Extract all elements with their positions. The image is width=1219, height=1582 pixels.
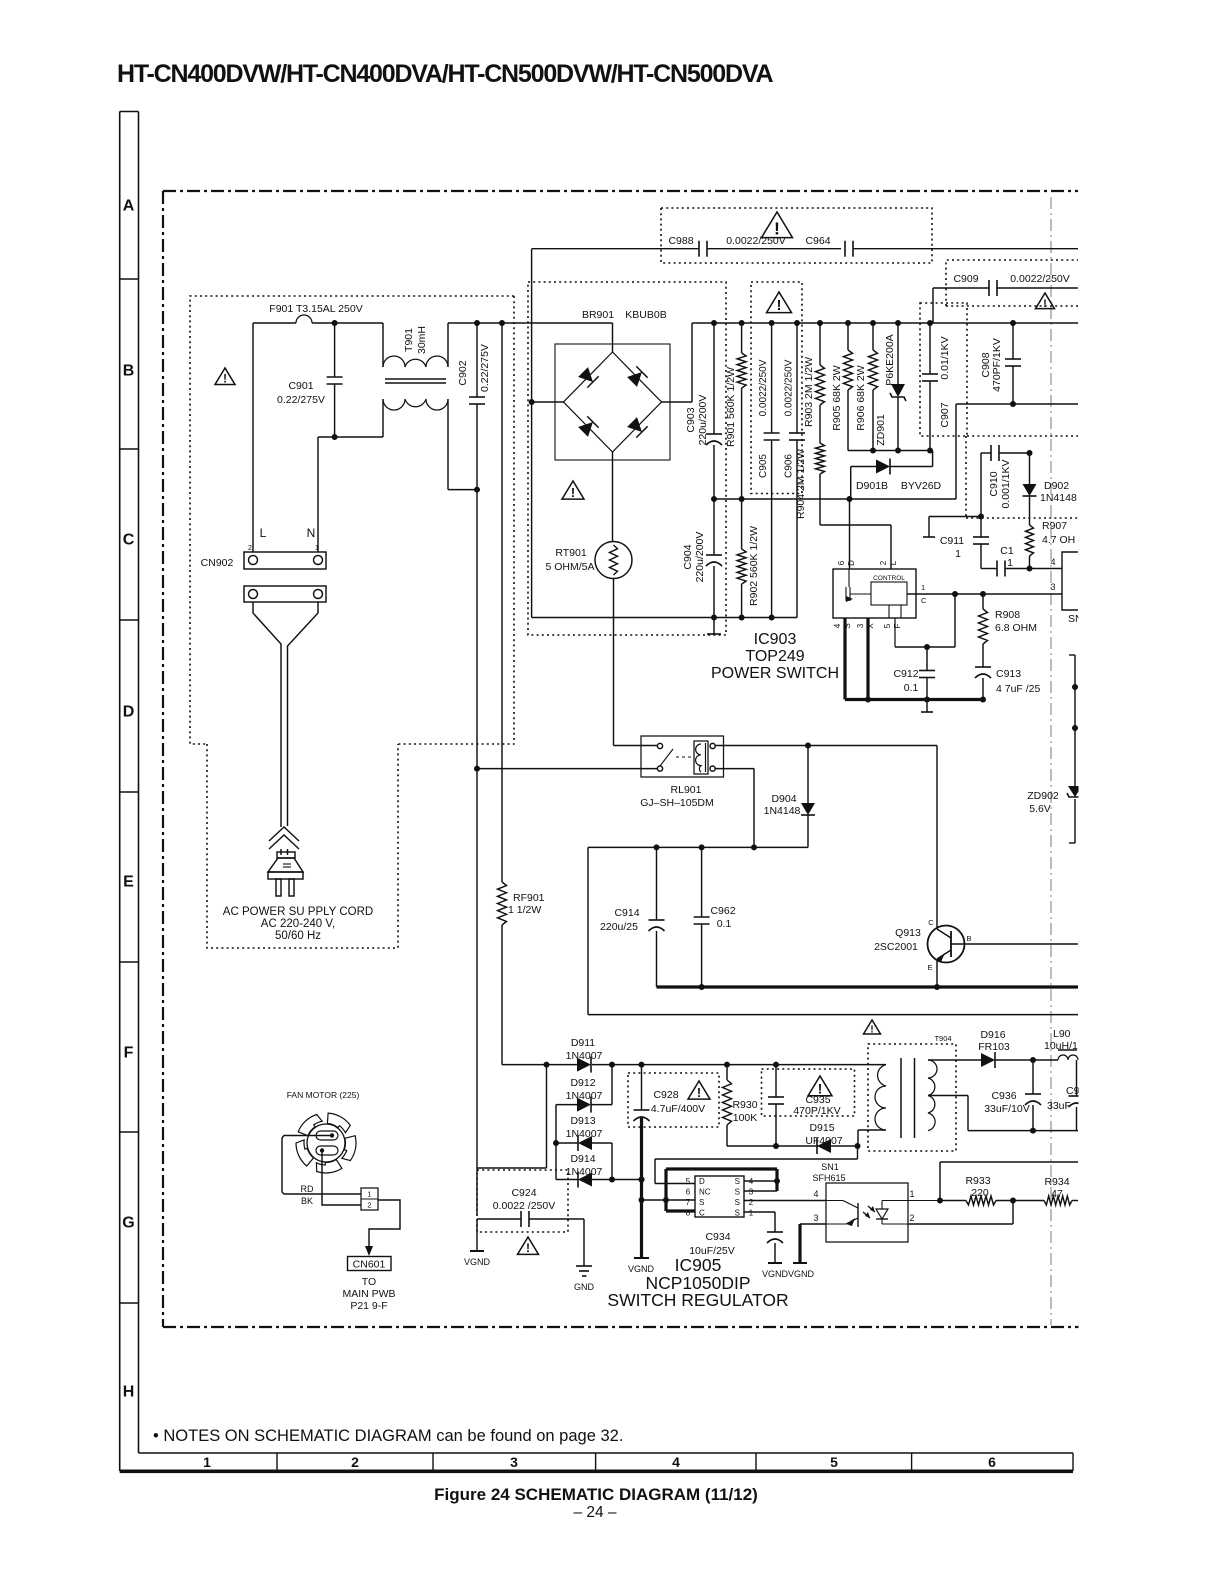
svg-text:1: 1 [749,1209,754,1218]
capacitor C962 [701,847,703,917]
svg-text:C936: C936 [991,1090,1016,1102]
svg-text:C910: C910 [988,471,1000,496]
svg-text:50/60 Hz: 50/60 Hz [275,930,321,942]
svg-text:C912: C912 [893,668,918,680]
capacitor C928 [641,1065,643,1110]
svg-text:SN1: SN1 [821,1162,839,1172]
svg-text:5: 5 [830,1454,838,1470]
svg-text:1N4007: 1N4007 [566,1050,603,1062]
wire IC905 pin1 to C934 [744,1211,775,1213]
wire relay bus down [587,847,589,1014]
right edge bus [1074,655,1076,786]
diode D902 [1029,453,1031,484]
svg-text:C906: C906 [784,454,795,478]
resistor R933 [940,1200,966,1202]
svg-text:0.01/1KV: 0.01/1KV [939,336,951,379]
resistor R901 [741,323,743,353]
resistor RF901 [501,323,503,882]
fan wires [282,1136,361,1195]
svg-text:A: A [123,198,135,215]
svg-text:4: 4 [833,623,842,628]
wire C988 line [532,248,699,250]
svg-text:CN902: CN902 [201,557,234,569]
svg-text:3: 3 [1050,582,1055,592]
wire RT901 to relay [613,579,615,746]
svg-text:R902 560K 1/2W: R902 560K 1/2W [748,526,760,606]
schematic dash-dot border [163,190,1078,192]
svg-text:!: ! [777,298,782,314]
standby bus [502,1064,575,1066]
diode D911 [575,1064,579,1066]
connector CN902 plug half [244,586,326,602]
svg-text:X: X [866,623,875,629]
capacitor C910 [981,452,991,454]
snubber wire [727,1145,858,1147]
AC return bus [532,617,797,619]
capacitor C908 [1012,323,1014,359]
resistor R930 [726,1065,728,1080]
svg-text:1: 1 [203,1454,211,1470]
dotted box C928 [628,1073,719,1127]
svg-text:T901: T901 [403,328,415,352]
svg-text:R906 68K 2W: R906 68K 2W [855,365,867,430]
column number strip [139,1452,1074,1454]
svg-text:0.001/1KV: 0.001/1KV [1000,459,1012,508]
svg-text:NC: NC [699,1188,711,1197]
chassis stub [713,618,715,635]
capacitor C934 [774,1212,776,1232]
svg-text:GND: GND [574,1282,595,1292]
svg-text:RL901: RL901 [671,784,702,796]
bridge diode top-right [626,366,647,387]
mid bus (startup node) [714,498,956,500]
svg-text:R908: R908 [995,609,1020,621]
capacitor C903 [713,323,715,434]
SN1 light arrows [863,1206,875,1218]
svg-text:6: 6 [837,560,846,565]
relay RL901 box [641,736,724,777]
svg-text:L90: L90 [1053,1028,1071,1040]
wire choke bottom right [447,399,449,490]
svg-text:UF4007: UF4007 [805,1135,843,1147]
svg-text:B: B [966,934,971,943]
capacitor C964 [844,241,846,257]
svg-text:D912: D912 [570,1077,595,1089]
terminal bar 2 [926,700,928,713]
svg-text:FR103: FR103 [978,1041,1010,1053]
wire top to C902 [448,322,613,324]
relay supply bus [588,846,808,848]
svg-text:C914: C914 [614,907,639,919]
svg-text:AC 220-240 V,: AC 220-240 V, [261,918,335,930]
feedback wire [937,1198,943,1204]
SN1 LED [881,1201,883,1210]
svg-text:KBUB0B: KBUB0B [625,309,666,321]
svg-text:CN601: CN601 [353,1259,386,1271]
warning triangle C924 [518,1237,539,1254]
bridge diode bottom-left [577,416,598,437]
svg-text:R934: R934 [1044,1176,1069,1188]
IC903 C pin wire [907,593,1062,595]
svg-text:• NOTES ON SCHEMATIC DIAGRAM c: • NOTES ON SCHEMATIC DIAGRAM can be foun… [153,1427,623,1445]
junction bridge left [529,399,535,405]
svg-text:F: F [124,1045,134,1062]
terminal bar [928,517,930,538]
svg-text:TO: TO [362,1276,376,1288]
capacitor C937 (clipped) [1076,1060,1078,1096]
transistor Q913 [928,926,965,963]
AC cord [253,602,281,827]
svg-text:1: 1 [1007,557,1013,569]
svg-text:4: 4 [813,1189,818,1199]
svg-text:470P/1KV: 470P/1KV [793,1105,840,1117]
zener ZD901 [897,323,899,384]
capacitor C912 [926,647,928,671]
svg-text:SFH615: SFH615 [812,1173,845,1183]
svg-text:1N4007: 1N4007 [566,1128,603,1140]
svg-text:33uF/10V: 33uF/10V [984,1103,1030,1115]
svg-text:P21 9-F: P21 9-F [350,1300,387,1312]
svg-text:RF901: RF901 [513,892,545,904]
svg-text:TOP249: TOP249 [745,648,804,665]
bridge diode bottom-right [626,416,647,437]
optocoupler SN1 box [826,1183,908,1242]
fan connector [361,1188,378,1210]
junction C902 top [474,320,480,326]
svg-text:220u/200V: 220u/200V [694,532,706,583]
svg-text:D902: D902 [1044,480,1069,492]
svg-text:2SC2001: 2SC2001 [874,941,918,953]
wire R904 to IC903 L pin [820,524,891,526]
IC905 drain loop (thick) [664,1169,667,1211]
warning triangle C905 box [767,292,792,313]
svg-text:0.0022/250V: 0.0022/250V [758,359,769,416]
diode D914 [556,1179,578,1181]
svg-text:4.7uF/400V: 4.7uF/400V [651,1103,705,1115]
svg-text:ZD902: ZD902 [1027,790,1059,802]
svg-text:8: 8 [686,1209,691,1218]
bridge dotted box [528,282,726,635]
svg-text:RT901: RT901 [555,547,586,559]
svg-text:S: S [735,1209,740,1218]
diode D901B [930,450,933,452]
resistor R934 [1044,1196,1072,1205]
SN1 right pin wires [882,1200,940,1202]
clamp bus [848,450,932,452]
svg-text:!: ! [697,1086,701,1100]
SN1 pin2 wire [908,1223,1013,1225]
svg-text:C913: C913 [996,668,1021,680]
diode D916 [981,1053,995,1067]
error amp box SN [1062,552,1078,610]
dotted box C910/D902 [967,435,1078,437]
svg-text:D: D [123,704,135,721]
svg-text:C: C [921,596,927,605]
right clip mask [1079,100,1219,1460]
svg-text:D914: D914 [570,1153,595,1165]
svg-text:F901 T3.15AL 250V: F901 T3.15AL 250V [269,303,362,315]
svg-text:1: 1 [909,1189,914,1199]
svg-text:S: S [699,1198,704,1207]
svg-text:!: ! [870,1024,873,1035]
svg-text:IC903: IC903 [754,631,797,648]
svg-text:H: H [123,1384,135,1401]
wire C909 to bus [932,288,934,323]
svg-text:220: 220 [971,1187,989,1199]
svg-text:C928: C928 [653,1089,678,1101]
bridge diode top-left [577,366,598,387]
warning triangle (AC) [215,368,235,385]
wire relay contact top [614,745,658,747]
svg-text:220u/200V: 220u/200V [697,395,709,446]
svg-text:R930: R930 [732,1099,757,1111]
svg-text:0.1: 0.1 [717,918,732,930]
wire bridge bottom to RT901 [612,452,614,542]
svg-text:D904: D904 [771,793,796,805]
ladder left rail [555,1105,557,1180]
capacitor C913 [975,666,991,668]
svg-text:470PF/1KV: 470PF/1KV [991,338,1003,392]
svg-text:R907: R907 [1042,520,1067,532]
svg-text:3: 3 [813,1213,818,1223]
svg-text:!: ! [526,1241,530,1255]
svg-text:1N4148: 1N4148 [764,805,801,817]
svg-text:3: 3 [510,1454,518,1470]
svg-text:C904: C904 [682,544,694,569]
thermistor RT901 [595,542,632,579]
svg-text:4.7 OH: 4.7 OH [1042,534,1075,546]
svg-text:N: N [307,526,316,540]
capacitor C902 [476,323,478,397]
resistor R905 [847,323,849,350]
junction fuse/C901 [332,320,338,326]
fan motor symbol [307,1124,345,1162]
relay coil [694,741,708,774]
svg-text:5: 5 [883,623,892,628]
capacitor C935 [775,1065,777,1097]
row label column [119,112,121,1472]
svg-text:!: ! [1043,298,1047,310]
resistor R906 [872,323,874,350]
svg-text:Figure 24 SCHEMATIC DIAGRAM (1: Figure 24 SCHEMATIC DIAGRAM (11/12) [434,1485,758,1504]
svg-text:2: 2 [749,1198,754,1207]
capacitor C924 [477,1218,521,1220]
svg-text:0.0022 /250V: 0.0022 /250V [493,1200,555,1212]
resistor R902 [741,499,743,549]
svg-text:S: S [843,623,852,628]
svg-text:1: 1 [955,548,961,560]
junction line B top [499,320,505,326]
svg-text:2: 2 [248,545,252,552]
capacitor C905 [771,323,773,433]
svg-text:2: 2 [351,1454,359,1470]
capacitor C907 [929,323,931,374]
dotted box C924 [477,1170,568,1232]
svg-text:B: B [123,363,135,380]
wire relay coil top to Q913 [716,745,938,747]
SN1 pin3 VGND (thick) [800,1223,826,1225]
cord break symbol [269,827,299,841]
main rectified bus [692,322,1078,324]
VGND (line A) [476,1219,478,1251]
svg-text:– 24 –: – 24 – [573,1504,616,1521]
svg-text:D915: D915 [809,1122,834,1134]
svg-text:5 OHM/5A: 5 OHM/5A [545,561,594,573]
capacitor C1 [981,568,997,570]
capacitor C988 [698,241,700,257]
svg-text:1 1/2W: 1 1/2W [508,904,541,916]
wire relay coil bottom [716,768,755,770]
svg-text:R903 2M 1/2W: R903 2M 1/2W [803,357,815,427]
svg-text:4: 4 [749,1177,754,1186]
svg-text:3: 3 [856,623,865,628]
junction C905 bottom [769,615,775,621]
AC plug [277,852,295,858]
T904 primary bottom lead [858,1129,886,1131]
svg-text:CONTROL: CONTROL [873,575,905,582]
svg-text:VGND: VGND [762,1269,789,1279]
junction R902 bottom [739,615,745,621]
svg-text:1N4148: 1N4148 [1040,492,1077,504]
svg-text:C934: C934 [705,1231,730,1243]
AC input section dotted box [190,296,514,744]
diode D915 [817,1139,831,1153]
svg-text:T904: T904 [934,1034,951,1043]
svg-text:!: ! [223,374,227,386]
svg-text:Q913: Q913 [895,927,921,939]
svg-text:220u/25: 220u/25 [600,921,638,933]
fuse F901 [253,322,296,324]
svg-text:C901: C901 [288,380,313,392]
svg-text:30mH: 30mH [416,326,428,354]
connector CN601 [348,1257,392,1271]
svg-text:S: S [735,1177,740,1186]
svg-text:HT-CN400DVW/HT-CN400DVA/HT-CN5: HT-CN400DVW/HT-CN400DVA/HT-CN500DVW/HT-C… [117,60,773,88]
GND symbol [583,1219,585,1266]
svg-text:100K: 100K [733,1112,758,1124]
capacitor C906 [796,323,798,433]
zener ZD902 [1068,786,1082,797]
svg-text:BK: BK [301,1196,313,1206]
svg-text:D913: D913 [570,1115,595,1127]
svg-text:1N4007: 1N4007 [566,1090,603,1102]
svg-text:0.0022/250V: 0.0022/250V [1010,273,1070,285]
svg-text:2: 2 [909,1213,914,1223]
svg-text:0.0022/250V: 0.0022/250V [726,235,786,247]
svg-text:10uF/25V: 10uF/25V [689,1245,735,1257]
svg-text:C907: C907 [939,402,951,427]
IC905 control wire [642,1199,696,1201]
svg-text:S: S [735,1198,740,1207]
svg-text:4: 4 [1050,557,1055,567]
wire C988 to bridge left [531,249,533,618]
relay contacts [657,743,662,748]
svg-text:1: 1 [315,545,319,552]
svg-text:IC905: IC905 [675,1255,722,1275]
svg-text:SWITCH REGULATOR: SWITCH REGULATOR [607,1290,788,1310]
warning triangle C988 box [762,212,793,238]
svg-text:L: L [889,560,898,565]
svg-text:BYV26D: BYV26D [901,480,942,492]
source return bus (thick) [845,698,983,701]
IC905 box [695,1176,744,1217]
junction C904 bottom [711,615,717,621]
T904 center tap [928,1095,968,1097]
capacitor C909 [933,287,989,289]
diode D904 [807,746,809,804]
svg-text:C903: C903 [685,407,697,432]
IC903 mosfet symbol [845,587,847,601]
wire mid bus to C908 rail [955,404,957,499]
IC903 bottom pins [843,618,846,700]
VGND thick line (C928) [640,1118,643,1258]
Y-cap dotted box C905/C906 [751,282,802,494]
capacitor C936 [1032,1060,1034,1094]
wire bridge left [532,401,564,403]
svg-text:D: D [699,1177,705,1186]
svg-text:C9: C9 [1066,1085,1080,1097]
svg-text:S: S [735,1188,740,1197]
ground return thick bus [657,985,1079,988]
Y-capacitor dotted box C988/C964 [661,208,932,263]
svg-text:33uF: 33uF [1047,1100,1071,1112]
svg-text:VGND: VGND [464,1257,491,1267]
svg-text:P6KE200A: P6KE200A [884,334,896,385]
IC903 D pin wire [849,499,851,569]
diode D912 [556,1104,577,1106]
wire N line [317,437,319,552]
warning triangle C909 [1036,293,1055,309]
svg-text:10uH/1: 10uH/1 [1044,1040,1078,1052]
bridge BR901 outline [555,344,670,460]
svg-text:C964: C964 [805,235,830,247]
AC cord dotted box [207,744,398,948]
svg-text:BR901: BR901 [582,309,614,321]
capacitor C909 dotted box [946,260,1078,306]
svg-text:5: 5 [686,1177,691,1186]
svg-text:R905 68K 2W: R905 68K 2W [831,365,843,430]
svg-text:D916: D916 [980,1029,1005,1041]
svg-text:C: C [123,532,135,549]
wire L line to choke [252,323,254,552]
diode D913 [556,1142,578,1144]
ladder feed rail [546,1065,548,1168]
svg-text:FAN MOTOR (225): FAN MOTOR (225) [287,1090,360,1100]
IC903 TOP249 box [833,569,916,618]
svg-text:0.22/275V: 0.22/275V [277,394,325,406]
drain node wire [857,1146,859,1159]
svg-text:D901B: D901B [856,480,888,492]
capacitor C904 [713,499,715,555]
snubber dotted box C907 [920,303,967,436]
B- return wire [588,1014,1078,1016]
svg-text:1N4007: 1N4007 [566,1166,603,1178]
IC903 CONTROL box [871,582,907,605]
svg-text:F: F [893,623,902,628]
svg-text:C1: C1 [1000,545,1014,557]
capacitor C901 [334,323,336,377]
svg-text:AC POWER SU PPLY CORD: AC POWER SU PPLY CORD [223,906,373,918]
svg-text:GJ–SH–105DM: GJ–SH–105DM [640,797,714,809]
svg-text:2: 2 [367,1201,371,1210]
svg-text:4: 4 [672,1454,680,1470]
svg-text:L: L [260,526,267,540]
junction C901 bottom [332,434,338,440]
svg-text:0.0022/250V: 0.0022/250V [784,359,795,416]
resistor R903 [819,323,821,365]
svg-text:C962: C962 [710,905,735,917]
wire line A down [476,490,478,1215]
